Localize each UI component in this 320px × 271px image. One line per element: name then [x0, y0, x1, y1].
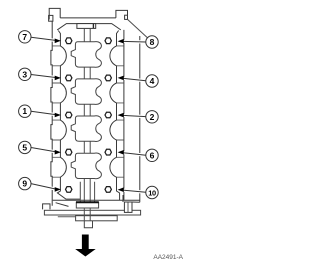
callout 8	[146, 36, 158, 48]
bolt 5 (row4 left)	[66, 149, 72, 155]
step tab inner line	[127, 202, 129, 212]
callout 4	[146, 75, 158, 87]
left wall connector ticks	[52, 46, 60, 177]
arrowhead 8	[118, 39, 124, 44]
leader 7	[31, 37, 56, 40]
combustion chamber 3	[71, 116, 101, 142]
leader 4	[123, 78, 146, 81]
head top outer edge	[60, 17, 116, 19]
callout 3	[19, 68, 31, 80]
callout 1	[19, 105, 31, 117]
bolt 10 (row5 right)	[105, 187, 111, 193]
leader 6	[123, 153, 146, 156]
svg-text:4: 4	[150, 76, 155, 86]
cap bold top edge	[76, 201, 99, 203]
leader 8	[123, 40, 146, 44]
arrowhead 7	[55, 39, 61, 44]
bolt 9 (row5 left)	[66, 187, 72, 193]
svg-text:9: 9	[22, 179, 27, 189]
T-bar dark tick	[92, 24, 94, 28]
left scalloped wall	[57, 31, 80, 200]
leader 3	[31, 75, 56, 78]
svg-text:6: 6	[150, 150, 155, 160]
bottom edge of head	[53, 199, 140, 201]
callout 2	[146, 111, 158, 123]
band2 left extension line	[58, 216, 76, 218]
top-left tab hole	[49, 15, 53, 21]
pedestal neck outer verticals	[80, 182, 94, 203]
bottom stub	[84, 221, 92, 228]
top-left tab	[49, 8, 60, 19]
svg-text:1: 1	[22, 106, 27, 116]
top-right tab	[116, 10, 128, 18]
callout 7	[19, 31, 31, 43]
T-bar boss at top	[77, 24, 96, 29]
right outer edge	[139, 36, 141, 202]
left outer edge with jogs	[51, 21, 52, 205]
callout 5	[19, 141, 31, 153]
arrowhead 10	[118, 187, 124, 192]
svg-text:AA2491-A: AA2491-A	[153, 254, 183, 261]
front-of-engine arrow	[75, 235, 96, 257]
arrowhead 2	[118, 113, 124, 118]
bolt 4 (row2 right)	[105, 75, 111, 81]
flange band 1 (wide)	[44, 210, 140, 215]
arrowhead 3	[55, 76, 61, 81]
arrowhead 9	[55, 187, 61, 192]
svg-text:3: 3	[22, 69, 27, 79]
arrowhead 5	[55, 150, 61, 155]
svg-text:5: 5	[22, 142, 27, 152]
svg-text:10: 10	[148, 188, 156, 197]
bottom-right corner connector	[123, 195, 140, 202]
inner top face	[57, 24, 121, 30]
bolt 3 (row2 left)	[66, 75, 72, 81]
leader 10	[123, 190, 146, 192]
callout 10	[146, 186, 158, 198]
lower stem	[84, 208, 90, 221]
arrowhead 1	[55, 113, 61, 118]
bottom pedestal cap	[76, 202, 98, 208]
combustion chamber 1	[71, 42, 101, 68]
bolt 1 (row3 left)	[66, 112, 72, 118]
bolt 8 (row1 right)	[105, 38, 111, 44]
callout 6	[146, 149, 158, 161]
leader 1	[31, 111, 56, 114]
top-right tab notch	[125, 15, 128, 19]
leader 9	[31, 184, 56, 189]
leader 2	[123, 115, 146, 116]
right mid vertical	[123, 30, 125, 200]
bottom-left diagonal	[56, 203, 69, 207]
flange band 2 (narrow)	[76, 216, 118, 221]
callout 9	[19, 177, 31, 189]
bottom-right step tab	[124, 202, 132, 212]
combustion chamber 4	[71, 153, 101, 179]
svg-text:8: 8	[150, 37, 155, 47]
bolt 7 (row1 left)	[66, 38, 72, 44]
svg-text:2: 2	[150, 112, 155, 122]
right scalloped wall	[110, 31, 120, 201]
center rails	[84, 28, 90, 202]
arrowhead 6	[118, 150, 124, 155]
right wall connector ticks	[117, 46, 124, 177]
svg-text:7: 7	[22, 32, 27, 42]
bolt 2 (row3 right)	[105, 112, 111, 118]
bottom-left small tab	[43, 204, 50, 210]
top-right corner diagonal to callout 8	[128, 19, 148, 37]
arrowhead 4	[118, 76, 124, 81]
bolt 6 (row4 right)	[105, 149, 111, 155]
leader 5	[31, 148, 56, 152]
combustion chamber 2	[71, 79, 101, 105]
